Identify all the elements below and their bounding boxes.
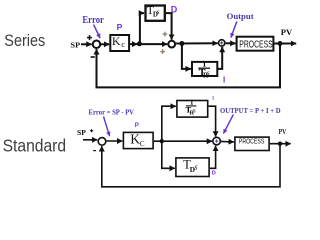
wire N2 down to block TRs: [182, 44, 191, 69]
svg-text:OUTPUT = P + I + D: OUTPUT = P + I + D: [220, 107, 281, 115]
wire S2 to node N2 and S3: [176, 42, 218, 44]
svg-text:PROCESS: PROCESS: [239, 139, 265, 146]
wire SP to summing junction S1': [83, 139, 97, 141]
block PROCESS (standard): [235, 137, 269, 150]
svg-text:K: K: [112, 34, 121, 48]
svg-text:s: s: [193, 106, 196, 114]
wire S2' to PROCESS': [221, 140, 234, 143]
svg-text:P: P: [135, 122, 139, 129]
wire Kc' to node N1': [154, 140, 162, 142]
svg-text:Error = SP - PV: Error = SP - PV: [89, 107, 135, 116]
plus inside S3: [220, 41, 223, 44]
minus sign at S1 feedback input: [91, 56, 95, 58]
svg-text:PROCESS: PROCESS: [239, 39, 273, 50]
svg-text:Standard: Standard: [3, 136, 67, 156]
block 1/TRs (standard integral): [177, 101, 208, 118]
wire PROCESS to PV: [274, 43, 296, 45]
svg-text:s: s: [157, 7, 160, 16]
gray plus at S2 left input: [160, 49, 165, 54]
annotation arrow OUTPUT to wire: [223, 115, 233, 134]
svg-text:PV: PV: [279, 127, 287, 136]
wire TDs' up to S2' bottom: [210, 146, 216, 169]
wire TRs up to S3 bottom: [218, 47, 222, 69]
svg-text:D: D: [212, 170, 216, 176]
block Kc (standard proportional): [123, 132, 153, 148]
plus sign at S1' input: [90, 129, 93, 132]
node N1 junction dot: [137, 41, 142, 46]
svg-text:I: I: [223, 76, 225, 85]
wire Kc to node N1: [130, 43, 137, 45]
block TDs (standard derivative): [176, 158, 209, 177]
gray plus at S2 top input: [163, 32, 168, 37]
svg-text:PV: PV: [281, 27, 293, 37]
plus sign at S1 top input: [87, 35, 92, 40]
summing junction S3 (series): [219, 40, 225, 46]
svg-text:c: c: [121, 40, 125, 49]
wire N1' down to block TDs': [162, 141, 175, 168]
summing junction S1 (series): [93, 41, 101, 49]
plus inside S2': [215, 139, 218, 142]
wire S1 to block Kc: [101, 43, 109, 45]
summing junction S2' (standard): [213, 137, 221, 145]
svg-text:SP: SP: [77, 130, 86, 137]
svg-text:P: P: [117, 22, 123, 32]
annotation arrow Error to S1: [94, 25, 101, 39]
svg-text:I: I: [212, 96, 214, 102]
block Kc (series proportional): [110, 35, 129, 51]
svg-text:Error: Error: [82, 15, 104, 26]
wire PROCESS' to PV: [270, 143, 291, 145]
svg-text:Output: Output: [227, 12, 254, 21]
summing junction S1' (standard): [98, 138, 106, 146]
feedback wire PV to S1 (series): [97, 44, 281, 88]
node PV junction dot (series): [278, 41, 283, 46]
node N2 junction dot: [179, 41, 184, 46]
wire S1' to Kc': [106, 140, 122, 142]
wire N1' up to block TRs': [162, 106, 176, 141]
node N1' junction dot: [160, 139, 164, 143]
annotation arrow Output to wire: [231, 22, 237, 38]
node PV junction dot (standard): [278, 142, 282, 146]
wire N1 to S2: [139, 43, 167, 45]
svg-text:SP: SP: [71, 40, 81, 49]
wire N1' to S2' (middle P path): [164, 140, 212, 142]
minus sign at S1' feedback input: [93, 150, 96, 152]
wire S3 to PROCESS: [226, 42, 236, 44]
block 1/TRs (series integral): [192, 62, 217, 76]
wire N1 up to block TDs: [140, 13, 144, 44]
svg-text:Series: Series: [4, 32, 45, 50]
annotation arrow Error to wire: [104, 117, 110, 137]
block TDs (series derivative): [146, 6, 165, 21]
wire SP to summing junction S1: [81, 43, 92, 45]
wire TDs down to S2 top: [166, 13, 172, 40]
svg-text:C: C: [140, 139, 145, 148]
svg-text:s: s: [207, 68, 210, 77]
feedback wire PV to S1' (standard): [102, 144, 280, 187]
summing junction S2 (series): [168, 41, 175, 48]
block PROCESS (series): [237, 37, 274, 51]
wire TRs' down to S2' top: [209, 106, 216, 136]
